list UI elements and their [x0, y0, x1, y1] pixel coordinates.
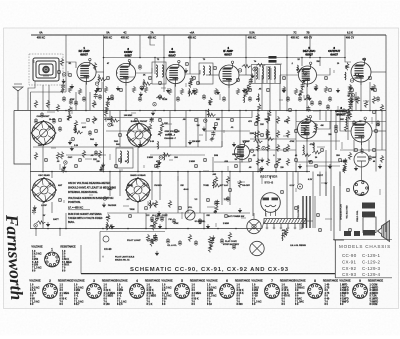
test point [351, 94, 354, 97]
ground [96, 86, 100, 91]
resistor [247, 82, 250, 90]
resistor [148, 124, 151, 132]
socket 2 voltage column [30, 284, 40, 306]
test point [114, 164, 117, 167]
resistor [256, 158, 259, 166]
osc coil can [116, 148, 133, 168]
socket 4 voltage column [117, 284, 127, 306]
resistor [348, 106, 351, 114]
ground [184, 68, 188, 73]
resistor [276, 116, 279, 124]
models table left border [334, 240, 336, 278]
capacitor [343, 158, 347, 164]
capacitor [58, 126, 62, 132]
capacitor [326, 104, 330, 110]
test point [196, 81, 199, 84]
ground [46, 222, 50, 227]
ground [250, 74, 254, 79]
ground [106, 96, 110, 101]
scan grain overlay [0, 0, 1, 1]
test point [294, 206, 297, 209]
ground [260, 158, 264, 163]
test point [178, 206, 181, 209]
socket 6 voltage column [207, 284, 217, 306]
resistor [106, 225, 115, 228]
capacitor [160, 216, 164, 222]
test point [134, 118, 137, 121]
test point [108, 123, 111, 126]
resistor [68, 86, 71, 93]
ground [302, 78, 306, 83]
test point [350, 88, 353, 91]
capacitor [138, 96, 142, 102]
resistor [348, 96, 351, 104]
wire: IF bus [104, 57, 346, 59]
ground [260, 166, 264, 171]
resistor [286, 130, 289, 138]
test point [274, 164, 277, 167]
test point [144, 206, 147, 209]
capacitor [176, 96, 180, 102]
socket 2 resistance column [60, 284, 70, 306]
resistor [78, 88, 81, 95]
capacitor [318, 100, 322, 106]
coil [188, 89, 191, 97]
wire: left border [30, 92, 32, 229]
resistor [99, 168, 102, 172]
ground [314, 86, 318, 91]
label tube V2 [124, 47, 133, 57]
capacitor [94, 150, 98, 156]
tube socket base diagram 2 [43, 279, 58, 298]
capacitor [360, 148, 364, 154]
capacitor [215, 200, 219, 206]
capacitor [153, 233, 157, 239]
resistor [256, 130, 259, 138]
coil [149, 200, 152, 208]
test point [324, 76, 327, 79]
test point [58, 198, 61, 201]
capacitor [306, 106, 310, 112]
capacitor [150, 117, 154, 123]
resistor [180, 88, 183, 95]
resistor [246, 86, 249, 94]
label tube V3 [168, 47, 176, 57]
resistor [344, 124, 347, 132]
wire: drop 2b [286, 35, 288, 58]
test point [95, 82, 98, 85]
coil [243, 95, 246, 103]
socket 3 resistance column [104, 284, 116, 306]
capacitor [226, 196, 230, 202]
resistor [56, 152, 59, 160]
resistor [380, 104, 383, 112]
test point [234, 164, 237, 167]
capacitor [88, 130, 92, 136]
resistor [242, 65, 251, 68]
ground [33, 205, 37, 210]
resistor [36, 221, 45, 224]
test point [238, 69, 241, 72]
resistor [98, 78, 107, 81]
resistor [265, 137, 274, 140]
wire [270, 176, 272, 179]
wire: drop antenna [65, 35, 67, 62]
pilot lamp socket [297, 184, 302, 189]
resistor strip (candohm) [264, 219, 306, 230]
test point [86, 118, 89, 121]
test point [373, 88, 376, 91]
ground [62, 165, 66, 170]
socket AC plug [250, 241, 264, 255]
resistor [188, 234, 191, 242]
test point [318, 228, 321, 231]
coil [265, 129, 268, 137]
divider above socket tables right [335, 277, 392, 279]
resistor [364, 100, 367, 108]
resistor [266, 158, 269, 166]
tube socket base diagram 9 [353, 279, 368, 298]
output transformer T2 [362, 203, 376, 236]
capacitor [286, 96, 290, 102]
wire power section [319, 172, 321, 197]
ground [70, 84, 74, 89]
ground [101, 163, 105, 168]
test point [204, 119, 207, 122]
tube socket base diagram 3 [87, 279, 102, 298]
capacitor [138, 64, 142, 70]
field coil blocks [344, 231, 360, 236]
test point [228, 188, 231, 191]
test point [158, 81, 161, 84]
socket 8 resistance column [325, 284, 330, 306]
resistor [226, 176, 229, 184]
coil [281, 233, 284, 241]
wire HT lead [252, 172, 254, 217]
top alignment labels [37, 31, 355, 39]
capacitor [352, 120, 356, 126]
tube socket base diagram 5 [175, 279, 190, 298]
test point [118, 133, 121, 136]
capacitor [376, 96, 380, 102]
test point [309, 160, 312, 163]
resistor [302, 153, 311, 156]
capacitor [342, 108, 346, 114]
resistor [298, 92, 301, 96]
resistor [92, 116, 95, 124]
tube V5 DET-AVC 6SQ7 [299, 62, 317, 87]
resistor [104, 109, 107, 117]
test point [282, 76, 285, 79]
label tube V6 [328, 46, 340, 56]
socket 3 voltage column [74, 284, 84, 306]
ground [378, 164, 382, 169]
test point [348, 228, 351, 231]
capacitor [40, 112, 44, 118]
resistor [304, 125, 307, 133]
wire power section [286, 172, 288, 219]
resistor [285, 228, 288, 236]
ground [211, 235, 215, 240]
tube socket base diagram 8 [308, 279, 323, 298]
resistor [34, 100, 37, 108]
capacitor [166, 238, 170, 244]
wire: drop out [344, 35, 346, 58]
capacitor [298, 96, 302, 102]
wire: drop IF [245, 35, 247, 66]
test point [194, 164, 197, 167]
ground [157, 211, 161, 216]
resistor [82, 150, 85, 158]
resistor [244, 90, 247, 97]
power switch / battery plug [247, 219, 261, 233]
misc interconnect wires [31, 35, 387, 229]
test point [203, 158, 206, 161]
resistor [256, 144, 259, 152]
test point [250, 149, 253, 152]
coil [254, 132, 257, 140]
resistor [347, 95, 350, 97]
tube socket base diagram 4 [130, 279, 145, 298]
test point [354, 148, 357, 151]
pilot light box [100, 232, 165, 263]
resistor [266, 130, 269, 138]
resistor [314, 123, 317, 131]
resistor [215, 205, 218, 213]
capacitor [98, 94, 102, 100]
capacitor [194, 240, 198, 246]
capacitor [82, 96, 86, 102]
capacitor [100, 165, 104, 171]
capacitor [178, 240, 182, 246]
resistor [294, 88, 297, 95]
resistor [148, 203, 157, 206]
title underline [81, 273, 335, 275]
capacitor [155, 215, 159, 221]
capacitor [334, 124, 338, 130]
capacitor [232, 244, 236, 250]
capacitor [69, 99, 73, 105]
ground [140, 86, 144, 91]
resistor [159, 128, 162, 136]
resistor [168, 88, 171, 95]
tube V2 CONV 6SB7 [116, 59, 135, 85]
resistor [160, 122, 163, 130]
test point [374, 129, 377, 132]
resistor [132, 86, 135, 93]
power transformer T3 [303, 196, 315, 228]
resistor [104, 86, 107, 93]
ground [94, 142, 98, 147]
ground [354, 166, 358, 171]
variable capacitor arrows [37, 126, 147, 197]
wire: bus y213 [107, 212, 250, 214]
dense interconnect wiring [36, 58, 386, 237]
resistor [356, 96, 359, 104]
resistor [256, 63, 265, 66]
test point [98, 88, 101, 91]
test point [248, 88, 251, 91]
resistor [152, 223, 155, 231]
resistor [107, 214, 110, 222]
resistor [238, 180, 241, 188]
ground [232, 142, 236, 147]
socket 5 resistance column [192, 284, 202, 306]
IF transformer T2 can [152, 62, 166, 84]
extra short wires [34, 60, 380, 230]
ground [350, 99, 354, 104]
ground [370, 86, 374, 91]
ground [157, 160, 161, 165]
coil [97, 75, 100, 83]
ground [116, 86, 120, 91]
resistor [214, 210, 217, 214]
wire power section [325, 150, 327, 196]
wire: B+ bus y110 [14, 110, 386, 112]
resistor [110, 119, 119, 122]
resistor [228, 232, 231, 240]
test point [350, 79, 353, 82]
ground [138, 142, 142, 147]
ground [328, 164, 332, 169]
tube socket speaker plug [354, 181, 369, 196]
resistor [60, 58, 63, 66]
label tube V4 [223, 46, 233, 56]
test point [236, 78, 239, 81]
coil [163, 152, 166, 160]
socket 1 resistance column [62, 250, 72, 272]
test point [294, 158, 297, 161]
capacitor [61, 167, 65, 173]
ground [68, 140, 72, 145]
capacitor [349, 102, 353, 108]
resistor [68, 106, 71, 114]
test point [119, 88, 122, 91]
capacitor [220, 238, 224, 244]
test point [254, 122, 257, 125]
coil [296, 65, 299, 73]
test point [262, 147, 265, 150]
tube socket base diagram 6 [220, 279, 235, 298]
coil [106, 222, 109, 230]
volume control pot [185, 207, 195, 220]
resistor [105, 105, 108, 113]
socket 9 resistance column [370, 284, 379, 306]
ground [158, 224, 162, 229]
socket 1 voltage column [32, 250, 42, 272]
ground [216, 90, 220, 95]
test point [260, 133, 263, 136]
capacitor [172, 218, 176, 224]
socket 7 resistance column [282, 284, 291, 306]
resistor [92, 100, 95, 108]
wire: top AVC/B+ border bus [31, 34, 386, 36]
capacitor [248, 96, 252, 102]
resistor [300, 88, 303, 96]
resistor [256, 116, 259, 124]
test point [174, 129, 177, 132]
tube V6 OUTPUT [351, 58, 371, 85]
test point [64, 161, 67, 164]
test point [58, 118, 61, 121]
capacitor [74, 100, 78, 106]
resistor [74, 120, 77, 128]
coil [312, 142, 315, 150]
tube V9 ballast [354, 152, 369, 167]
resistor [314, 84, 317, 91]
test point [44, 158, 47, 161]
scattered value labels [70, 98, 358, 247]
test point [372, 148, 375, 151]
wire: right border [385, 35, 387, 232]
test point [372, 110, 375, 113]
test point [154, 164, 157, 167]
ground [242, 88, 246, 93]
tube V4 IF AMP 6SG7 [219, 61, 239, 88]
coil [344, 72, 347, 80]
wire: drop conv [189, 35, 191, 62]
resistor [348, 152, 351, 160]
ground [238, 208, 242, 213]
capacitor [368, 155, 372, 161]
test point [128, 214, 131, 217]
resistor [286, 116, 289, 124]
coil [157, 141, 160, 149]
tube socket base diagram 1 [45, 248, 60, 267]
resistor [207, 113, 216, 116]
test point [328, 88, 331, 91]
test point [192, 76, 195, 79]
capacitor [198, 218, 202, 224]
test point [148, 76, 151, 79]
resistor [143, 82, 152, 85]
test point [94, 129, 97, 132]
capacitor [214, 200, 218, 206]
switch wafer S2 BAND FRONT [127, 123, 152, 148]
resistor [98, 150, 101, 158]
capacitor [52, 118, 56, 124]
test point [320, 148, 323, 151]
test point [280, 190, 283, 193]
resistor [283, 230, 286, 238]
IF can trimmer stack [269, 56, 277, 59]
test point [314, 164, 317, 167]
resistor [190, 76, 193, 84]
coil [207, 109, 210, 117]
capacitor [328, 96, 332, 102]
wire: AVC bus y171.5 [30, 171, 310, 173]
test point [74, 164, 77, 167]
resistor [276, 130, 279, 138]
test point [304, 72, 307, 75]
wire power section [330, 111, 332, 232]
wire power section [292, 172, 294, 219]
socket 7 voltage column [252, 284, 262, 306]
socket 6 resistance column [237, 284, 244, 306]
coil [302, 145, 305, 153]
ground [70, 146, 74, 151]
ground [202, 126, 206, 131]
socket 5 voltage column [162, 284, 172, 306]
label tube V8 [335, 106, 347, 116]
capacitor [32, 208, 36, 214]
resistor [236, 88, 239, 95]
resistor [343, 166, 346, 173]
resistor [276, 144, 279, 152]
ground [192, 88, 196, 93]
capacitor [211, 131, 215, 137]
resistor [208, 236, 211, 244]
